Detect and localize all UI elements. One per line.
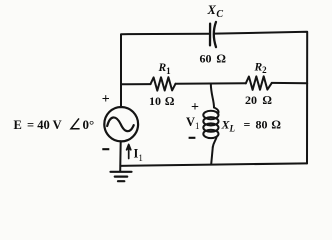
svg-text:0°: 0° <box>83 117 95 132</box>
wire top-left segment <box>121 34 210 107</box>
svg-text:+: + <box>102 92 110 107</box>
wire middle center <box>176 82 246 85</box>
label source minus <box>102 148 109 150</box>
current arrow I1 <box>127 144 131 158</box>
wire source bottom stem <box>119 141 122 171</box>
resistor R1 <box>151 77 176 90</box>
wire bottom <box>120 163 307 166</box>
svg-text:E = 40 V: E = 40 V <box>14 118 62 132</box>
wire top-right segment <box>215 32 307 164</box>
label V1 minus <box>189 137 196 139</box>
svg-text:+: + <box>191 100 199 115</box>
ground <box>111 172 132 181</box>
capacitor XC <box>210 22 216 47</box>
angle symbol <box>71 118 80 128</box>
resistor R2 <box>246 76 272 90</box>
inductor XL <box>203 84 218 165</box>
ac source E <box>104 107 138 141</box>
wire middle left <box>121 83 151 85</box>
wire middle right <box>272 82 307 84</box>
